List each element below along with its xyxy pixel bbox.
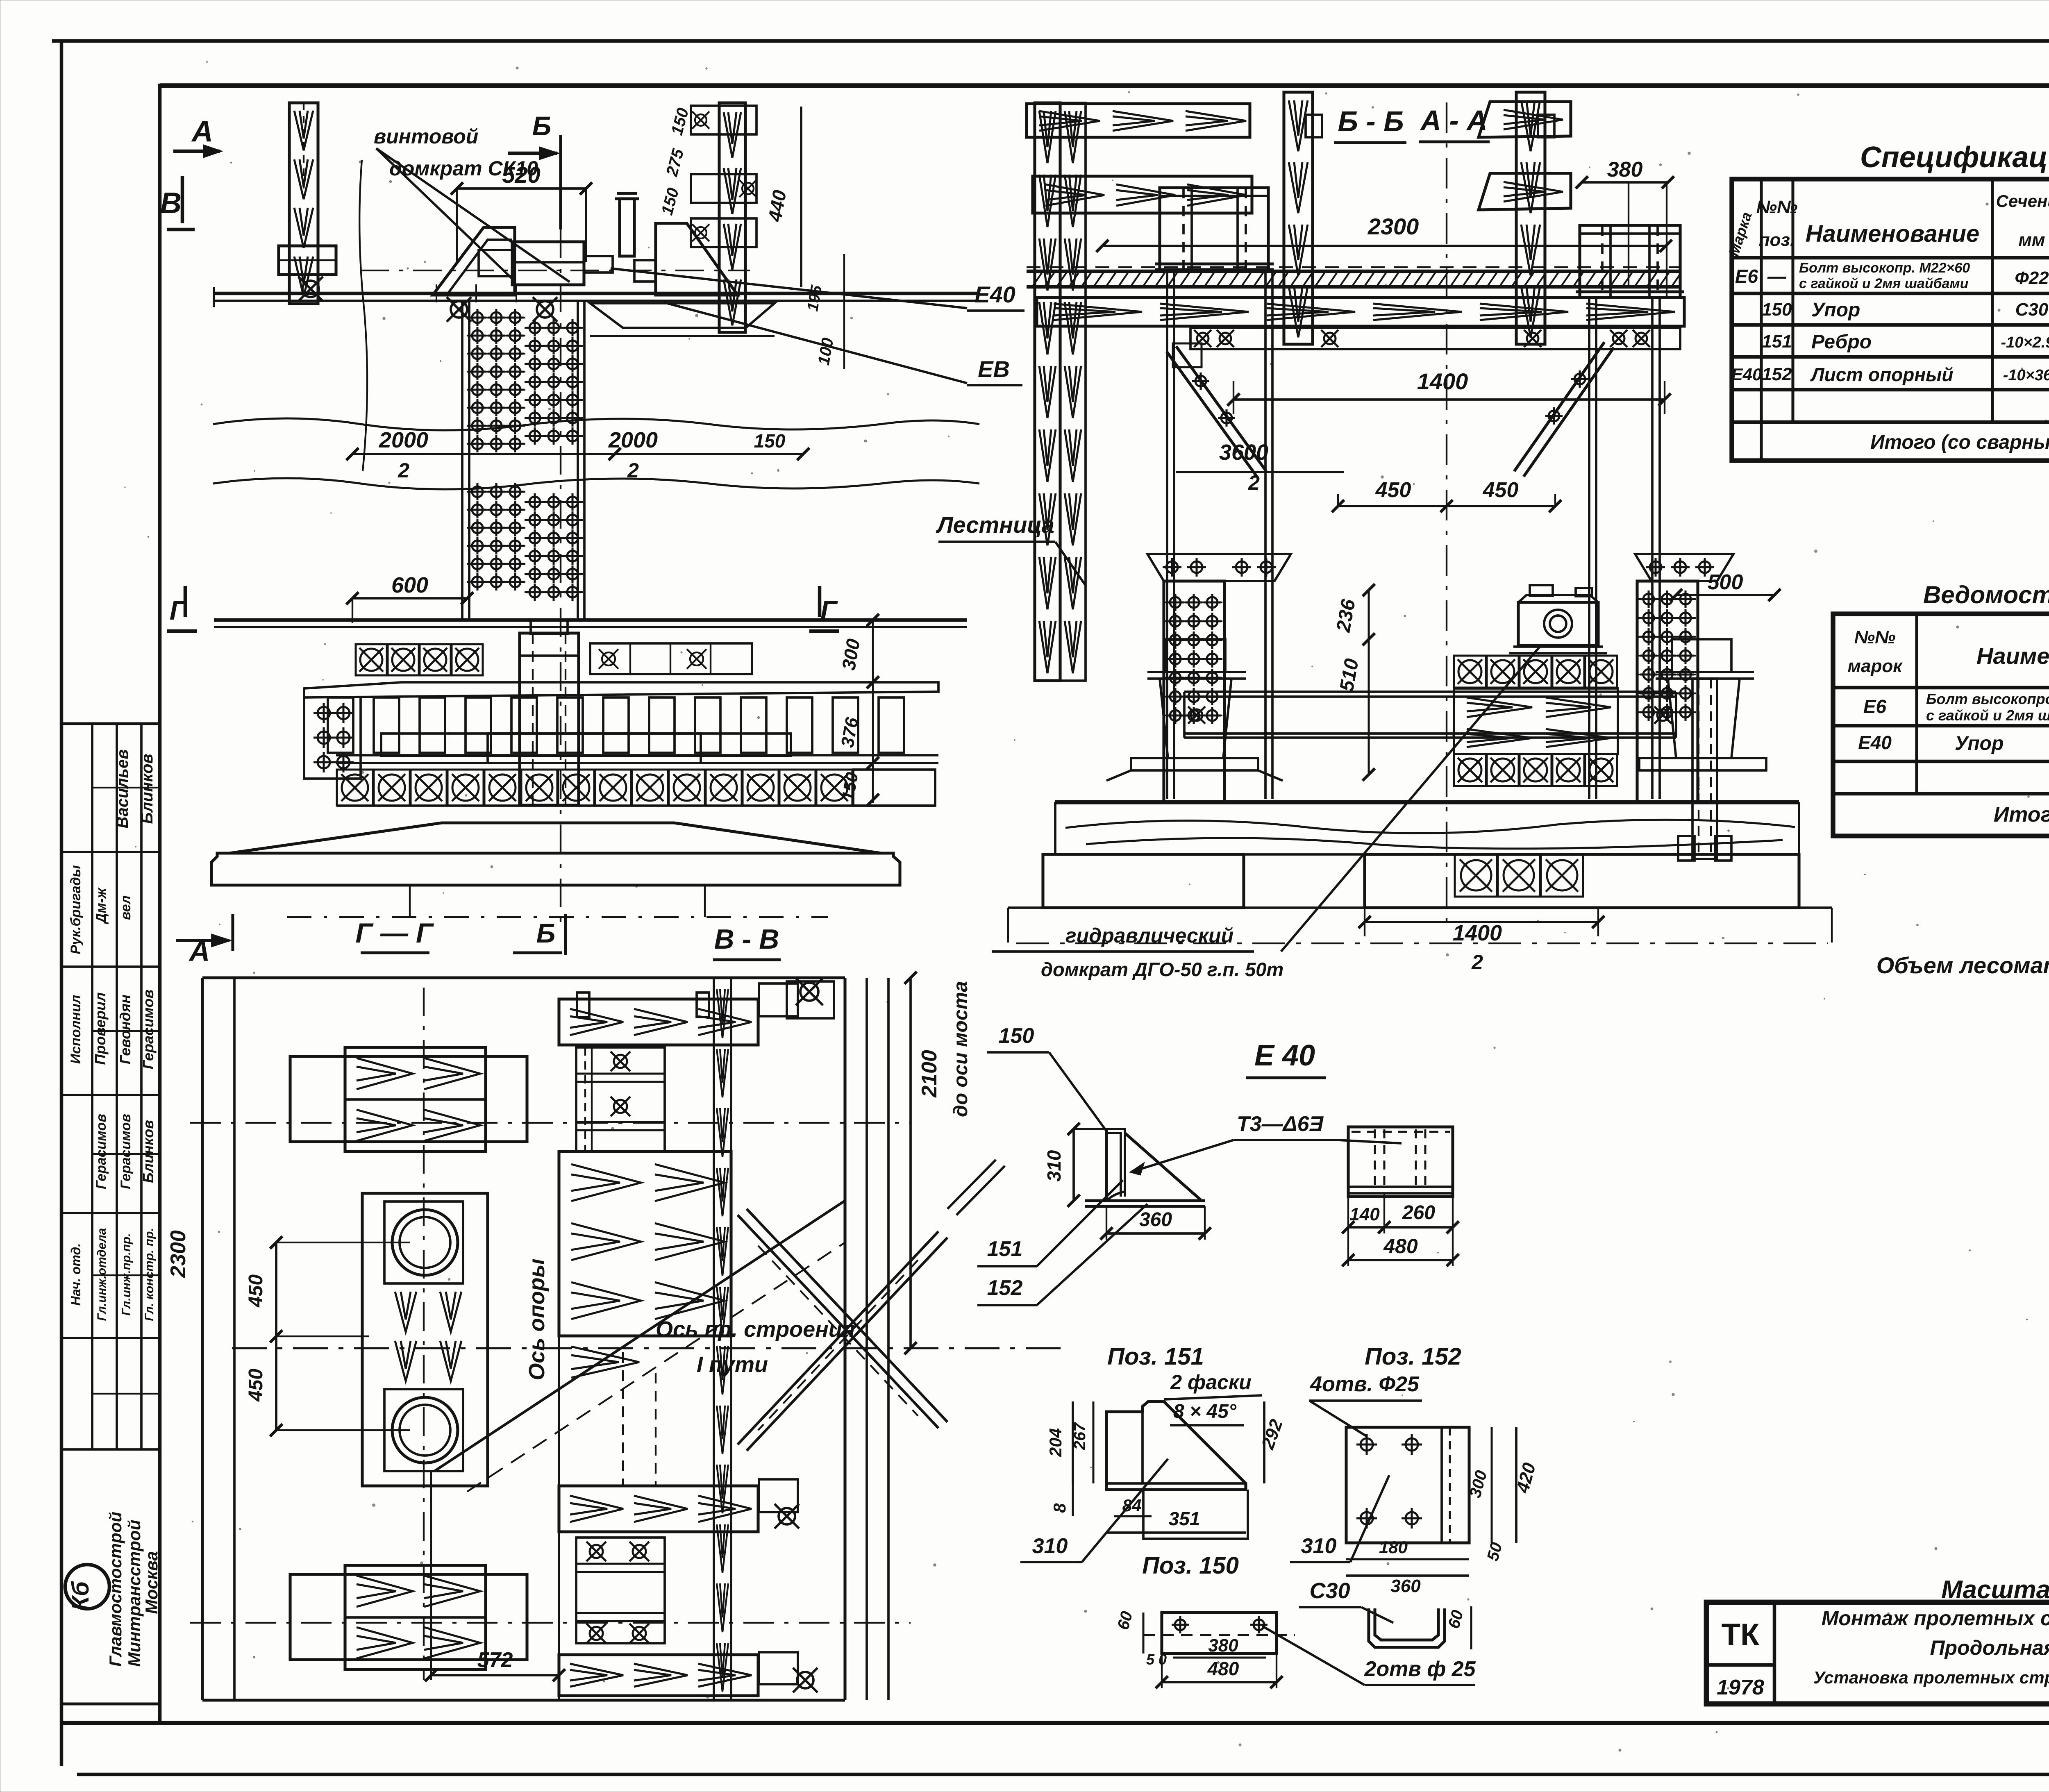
svg-text:310: 310: [1301, 1534, 1337, 1558]
svg-text:Е6: Е6: [1863, 696, 1887, 717]
svg-text:Сечение: Сечение: [1996, 191, 2049, 211]
plan bottom timber beam: [559, 1486, 758, 1532]
svg-text:267: 267: [1071, 1422, 1089, 1450]
svg-text:вел: вел: [118, 895, 134, 920]
svg-text:260: 260: [1402, 1202, 1435, 1224]
inner post left: [1284, 92, 1313, 344]
E40 right view box: [1348, 1127, 1453, 1197]
svg-text:3600: 3600: [1219, 440, 1268, 465]
svg-text:Упор: Упор: [1955, 733, 2004, 754]
foundation footing left: [1043, 854, 1244, 908]
grillage top beam slope: [304, 682, 938, 697]
svg-text:Нач. отд.: Нач. отд.: [68, 1243, 83, 1306]
svg-text:600: 600: [391, 573, 428, 597]
E40 left view dim 310: [1072, 1129, 1075, 1201]
pier top rail line: [214, 292, 978, 295]
upor box right E40: [1580, 225, 1680, 298]
svg-text:В: В: [160, 187, 182, 220]
svg-text:Итого:: Итого:: [1994, 803, 2049, 827]
diagonal cut boundary: [434, 1201, 845, 1471]
bolt grid lower left: [467, 491, 525, 493]
svg-text:180: 180: [1379, 1538, 1408, 1557]
table2 horizontal lines: [1833, 686, 2049, 690]
svg-text:Герасимов: Герасимов: [118, 1114, 134, 1189]
upper-left inner block planks: [345, 1047, 486, 1152]
svg-text:мм: мм: [2018, 230, 2045, 250]
center vertical dash axis: [423, 988, 425, 1680]
svg-text:винтовой: винтовой: [374, 125, 478, 148]
svg-text:2: 2: [1471, 951, 1483, 974]
grillage bottom flange: [336, 754, 938, 756]
svg-text:204: 204: [1046, 1428, 1065, 1457]
svg-text:Ф22: Ф22: [2015, 268, 2049, 288]
main slide I-beam: [1027, 270, 1680, 273]
horizontal strut between towers: [1184, 690, 1676, 693]
svg-text:Продольная надвижка: Продольная надвижка: [1930, 1636, 2049, 1659]
inner post right: [1516, 92, 1545, 344]
svg-text:2000: 2000: [379, 428, 428, 452]
svg-text:Монтаж пролетных строений 45,: Монтаж пролетных строений 45,0 и 55,0м: [1822, 1607, 2049, 1630]
svg-text:Е40: Е40: [1858, 732, 1892, 753]
E40 left dim 360: [1106, 1232, 1205, 1235]
Поз151 lower rect part: [1143, 1490, 1248, 1539]
dimension 450 450: [1338, 505, 1555, 507]
svg-text:№№: №№: [1756, 197, 1798, 217]
svg-text:Е6: Е6: [1735, 266, 1758, 287]
table1 outer box: [1732, 179, 2049, 461]
left bearing stack: [1166, 639, 1225, 672]
top beam left with grain: [1027, 104, 1250, 137]
middle-left tall block: [362, 1193, 488, 1486]
svg-text:2 фаски: 2 фаски: [1170, 1371, 1251, 1394]
lower-left inner block planks: [345, 1565, 486, 1669]
svg-text:4отв. Ф25: 4отв. Ф25: [1310, 1372, 1420, 1396]
dimension 600: [352, 597, 467, 600]
diagonal brace left: [1167, 346, 1266, 477]
right upor legs: [1588, 298, 1590, 799]
svg-text:Б: Б: [536, 918, 556, 948]
svg-text:360: 360: [1139, 1209, 1172, 1231]
svg-text:до оси моста: до оси моста: [950, 981, 972, 1117]
svg-text:Болт высокопрочный М22×60: Болт высокопрочный М22×60: [1926, 690, 2049, 707]
dimension 2300 vertical: [201, 1095, 204, 1555]
left post jack cross: [302, 281, 319, 297]
svg-text:Поз. 152: Поз. 152: [1365, 1343, 1461, 1370]
svg-text:I пути: I пути: [697, 1352, 768, 1377]
cribbing row1 x-squares: [356, 644, 387, 675]
svg-text:5 0: 5 0: [1146, 1651, 1167, 1668]
svg-text:2отв ф 25: 2отв ф 25: [1364, 1657, 1476, 1681]
upper jack circle: [392, 1210, 458, 1275]
svg-text:360: 360: [1390, 1576, 1421, 1596]
foundation footing right: [1365, 854, 1799, 908]
x-brace diagonal 1: [738, 1209, 947, 1428]
screw jack body: [512, 242, 584, 285]
inner frame top line: [160, 83, 2049, 88]
svg-text:—: —: [1767, 266, 1787, 287]
table2 outer box: [1833, 614, 2049, 836]
plan outer rect bottom: [202, 1699, 845, 1701]
cribbing row1 right sleepers: [590, 643, 752, 674]
center column lower part: [558, 1152, 560, 1700]
svg-text:Исполнил: Исполнил: [68, 995, 84, 1064]
I-beam hatch: [1033, 273, 1042, 286]
scan speckles: [850, 317, 852, 319]
screw jack assembly left wedge: [433, 227, 515, 295]
svg-text:2300: 2300: [166, 1230, 190, 1278]
svg-text:310: 310: [1043, 1150, 1065, 1181]
center axis Б-Б: [1446, 102, 1447, 922]
Поз151 dim 351: [1106, 1531, 1246, 1534]
Поз152 dim 300 420 right: [1491, 1427, 1493, 1543]
cribbing under jack row1: [1454, 656, 1486, 688]
svg-text:Г — Г: Г — Г: [355, 918, 434, 949]
plan lowest timber beam: [559, 1655, 758, 1696]
upor bottom bands: [1155, 262, 1274, 265]
center axis view1: [560, 229, 561, 922]
inner frame bottom line: [61, 1721, 2049, 1725]
bolt grid upper left: [467, 317, 525, 318]
left post bracket: [279, 246, 336, 275]
svg-text:Кб: Кб: [67, 1581, 94, 1611]
bolt grid lower right: [525, 501, 583, 503]
svg-text:150: 150: [999, 1024, 1034, 1048]
svg-text:1400: 1400: [1417, 368, 1468, 394]
svg-text:Гл. констр. пр.: Гл. констр. пр.: [143, 1228, 156, 1321]
post bolt squares: [1306, 115, 1322, 137]
grillage left gusset bolts: [304, 697, 361, 779]
table1 vertical lines: [1760, 179, 1763, 461]
table1 horizontal lines: [1732, 256, 2049, 260]
svg-text:с гайкой и 2мя шайбами: с гайкой и 2мя шайбами: [1926, 707, 2049, 724]
svg-text:Москва: Москва: [142, 1551, 161, 1614]
svg-text:Ребро: Ребро: [1811, 331, 1872, 353]
foundation top line: [1055, 800, 1799, 803]
wood grain lower center partial: [571, 1347, 639, 1378]
right bearing stack: [1672, 639, 1731, 672]
cribbing big row x-circle squares: [337, 770, 373, 806]
scan crack line: [359, 160, 367, 471]
svg-text:Лист опорный: Лист опорный: [1810, 364, 1954, 385]
stamp org logo KB: [65, 1565, 109, 1609]
inner frame left line / stamp right edge: [158, 84, 162, 1723]
plan top timber beam: [559, 999, 758, 1045]
dimension 450 450 vertical: [275, 1242, 277, 1430]
plan top beam right clamp: [759, 983, 798, 1016]
dimension 500 right: [1676, 594, 1774, 596]
x-brace upper extension: [947, 1160, 1005, 1215]
svg-text:500: 500: [1708, 570, 1743, 594]
second level beam left: [1033, 176, 1252, 213]
plan outer rect top: [202, 976, 845, 979]
plan left double verticals: [201, 978, 204, 1700]
E40 right dim 480: [1348, 1259, 1453, 1261]
svg-text:Поз. 151: Поз. 151: [1107, 1343, 1204, 1370]
x-brace diagonal 2: [738, 1231, 947, 1451]
foundation cribbing center: [1455, 854, 1497, 897]
svg-text:Минтрансстрой: Минтрансстрой: [125, 1520, 144, 1667]
second level beam right: [1479, 173, 1571, 210]
hydraulic jack body: [1518, 602, 1598, 645]
big center timber column grain: [559, 1152, 731, 1336]
svg-text:380: 380: [1208, 1635, 1238, 1656]
TK cell: [1706, 1663, 1774, 1667]
pier cap bottom dashes: [211, 884, 900, 886]
svg-text:2300: 2300: [1368, 213, 1419, 239]
Поз152 dims bottom 180 360: [1346, 1558, 1469, 1560]
nasadka timber band: [1037, 298, 1684, 326]
svg-text:Лестница: Лестница: [936, 512, 1054, 538]
stamp section dividers: [61, 851, 160, 853]
svg-text:Рук.бригады: Рук.бригады: [68, 865, 84, 954]
dimension 380 top right: [1582, 181, 1668, 184]
svg-text:С30: С30: [1309, 1579, 1350, 1603]
Поз150 channel section: [1369, 1608, 1445, 1647]
rail dashed line: [1027, 266, 1680, 268]
svg-text:ЕВ: ЕВ: [978, 356, 1010, 382]
support band under cribbing: [337, 804, 935, 807]
svg-text:поз.: поз.: [1759, 230, 1795, 250]
svg-text:Гевондян: Гевондян: [117, 995, 134, 1064]
stamp sub row lines: [92, 787, 160, 788]
Поз150 plate with holes: [1162, 1613, 1277, 1653]
svg-text:Главмостострой: Главмостострой: [106, 1512, 125, 1667]
Поз151 dim 204: [1072, 1401, 1074, 1483]
plan axis lower horizontal: [190, 1622, 911, 1624]
svg-text:8: 8: [1050, 1503, 1069, 1513]
x-brace dashed parallels: [758, 1246, 918, 1416]
jack right wedge: [656, 223, 738, 295]
dimension 1400 mid: [1233, 398, 1665, 401]
svg-text:Т3—Δ6Ǝ: Т3—Δ6Ǝ: [1237, 1112, 1324, 1136]
cross beam with bolts: [1190, 328, 1680, 349]
svg-text:-10×2.92: -10×2.92: [2001, 334, 2049, 351]
second rail line: [214, 618, 967, 622]
svg-text:Е40: Е40: [1731, 365, 1762, 384]
top beam right with grain: [1479, 102, 1571, 137]
svg-text:351: 351: [1169, 1508, 1200, 1529]
leader 152 to base: [1037, 1204, 1147, 1305]
svg-text:А - А: А - А: [1420, 104, 1487, 136]
left tower with bolt grid: [1164, 581, 1224, 802]
bolt grid upper right: [525, 327, 583, 329]
svg-text:2: 2: [398, 459, 409, 482]
svg-text:1978: 1978: [1717, 1676, 1764, 1699]
svg-text:Блинков: Блинков: [140, 1120, 157, 1183]
svg-text:Наименование: Наименование: [1806, 220, 1979, 247]
svg-text:Ось пр. строения: Ось пр. строения: [656, 1317, 855, 1342]
lower jack circle: [392, 1397, 458, 1463]
Поз152 plate rect: [1346, 1427, 1469, 1543]
bottom beam clamps: [759, 1479, 798, 1512]
grillage I-beam webs: [328, 697, 353, 753]
Поз151 dim 292: [1263, 1401, 1265, 1483]
svg-text:Васильев: Васильев: [114, 750, 132, 829]
svg-text:С30: С30: [2015, 300, 2049, 320]
svg-text:152: 152: [987, 1276, 1023, 1300]
svg-text:2: 2: [1248, 471, 1260, 494]
foundation base line: [1008, 906, 1832, 909]
plan axis upper horizontal: [190, 1122, 911, 1124]
foundation timber band: [1055, 803, 1799, 854]
svg-text:2100: 2100: [918, 1050, 941, 1098]
dimension 2300: [1102, 245, 1666, 247]
plan center horizontal axis: [232, 1347, 1070, 1349]
pedestal cap small: [531, 620, 568, 634]
vertical web posts: [461, 301, 463, 620]
svg-text:-10×360: -10×360: [2003, 367, 2049, 384]
center column lower dashed verticals: [622, 1352, 624, 1486]
svg-text:Б - Б: Б - Б: [1338, 105, 1404, 137]
sheet outer border left: [60, 41, 64, 1766]
dimension 572: [431, 1674, 559, 1676]
E40 right dims 140 260: [1348, 1226, 1453, 1229]
svg-text:152: 152: [1762, 364, 1792, 384]
svg-text:450: 450: [245, 1274, 267, 1308]
break wavy line mid: [213, 418, 979, 430]
svg-text:84: 84: [1122, 1496, 1142, 1515]
svg-text:ТК: ТК: [1722, 1617, 1760, 1652]
svg-text:Блинков: Блинков: [138, 754, 156, 824]
right timber column top with grain: [719, 103, 745, 332]
wood beams under jack: [1454, 688, 1618, 754]
upor box left E40: [1160, 188, 1268, 270]
svg-text:2: 2: [627, 459, 639, 482]
svg-text:2000: 2000: [608, 428, 658, 452]
lower steel bracket with bolts: [576, 1538, 665, 1643]
leader E40 to upor: [611, 268, 967, 308]
svg-text:140: 140: [1349, 1204, 1380, 1224]
outer column left: [1035, 103, 1060, 681]
leader 151 to rib: [1037, 1180, 1123, 1266]
svg-text:Наименование: Наименование: [1976, 643, 2049, 669]
svg-text:Герасимов: Герасимов: [93, 1114, 109, 1189]
svg-text:Гл.инж.пр.пр.: Гл.инж.пр.пр.: [120, 1233, 133, 1315]
svg-text:520: 520: [502, 162, 540, 188]
leader from label to jack: [376, 148, 570, 282]
pier cap slab: [211, 853, 900, 885]
cribbing under jack row2: [1454, 754, 1486, 786]
right hanging channel dashed: [1692, 679, 1717, 859]
svg-text:Объем лесоматериалов 1,8 м³: Объем лесоматериалов 1,8 м³: [1876, 952, 2049, 978]
svg-text:150: 150: [754, 430, 786, 452]
cross marks on rail: [427, 293, 445, 294]
Поз151 dim 267: [1093, 1401, 1095, 1483]
dimension 520: [457, 187, 586, 190]
svg-text:гидравлический: гидравлический: [1065, 924, 1233, 947]
svg-text:Е 40: Е 40: [1254, 1039, 1315, 1072]
svg-text:Упор: Упор: [1811, 299, 1860, 321]
svg-text:450: 450: [245, 1369, 267, 1402]
left stamp block outline: [61, 722, 160, 725]
svg-text:1400: 1400: [1453, 921, 1502, 945]
foundation centerline bottom: [1016, 943, 1828, 944]
svg-text:марок: марок: [1847, 656, 1903, 676]
diagonal brace right: [1514, 342, 1614, 477]
stamp column lines: [91, 724, 93, 1449]
svg-text:В - В: В - В: [714, 924, 779, 955]
svg-text:домкрат ДГО-50 г.п. 50т: домкрат ДГО-50 г.п. 50т: [1041, 958, 1283, 980]
svg-text:Гл.инж.отдела: Гл.инж.отдела: [95, 1228, 109, 1321]
Поз151 plate shape: [1106, 1401, 1246, 1490]
plan vertical post right of center: [714, 978, 731, 1700]
svg-text:Установка пролетных строений н: Установка пролетных строений на опорные …: [1813, 1668, 2049, 1687]
diagonal cut dashed parallel: [467, 1242, 845, 1492]
sheet outer border bottom: [77, 1773, 2049, 1776]
svg-text:Дм-ж: Дм-ж: [93, 887, 109, 924]
svg-text:150: 150: [1762, 300, 1792, 320]
svg-text:Поз. 150: Поз. 150: [1142, 1552, 1239, 1579]
leader to hydraulic jack: [1281, 645, 1541, 952]
left upor legs: [1166, 270, 1168, 799]
gusset plate right tower: [1635, 554, 1733, 581]
svg-text:с гайкой и 2мя шайбами: с гайкой и 2мя шайбами: [1799, 276, 1969, 291]
svg-text:А: А: [191, 115, 213, 148]
right tower with bolt grid: [1637, 581, 1698, 802]
upper steel bracket with bolts: [576, 1047, 665, 1152]
svg-text:450: 450: [1483, 478, 1519, 502]
svg-text:Е40: Е40: [975, 282, 1015, 307]
svg-text:Б: Б: [532, 111, 552, 141]
dimension 2000/2 right: [615, 453, 803, 455]
plan right double verticals: [843, 978, 846, 1700]
table2 vertical lines: [1915, 614, 1918, 794]
gusset plate left tower: [1147, 554, 1291, 581]
svg-text:380: 380: [1607, 158, 1643, 182]
svg-text:151: 151: [987, 1237, 1023, 1261]
svg-text:572: 572: [477, 1648, 513, 1672]
lower jack pad square: [384, 1389, 463, 1471]
leader T3 to профиль: [1131, 1140, 1233, 1172]
jack pipe vertical: [620, 199, 634, 256]
right column sleeper 1: [691, 106, 756, 134]
svg-text:151: 151: [1762, 332, 1792, 352]
jack base plate: [1513, 645, 1603, 648]
right column sleeper 2: [691, 174, 756, 203]
cribbing right plain part: [853, 770, 935, 806]
sheet outer border top: [52, 39, 2049, 43]
svg-text:Итого (со сварными швами):: Итого (со сварными швами):: [1870, 432, 2049, 453]
svg-text:№№: №№: [1854, 627, 1896, 647]
svg-text:Герасимов: Герасимов: [140, 990, 157, 1070]
Поз152 bolts: [1361, 1438, 1373, 1451]
dimension 2000/2 left: [352, 453, 615, 455]
svg-text:480: 480: [1383, 1235, 1418, 1258]
svg-text:480: 480: [1207, 1658, 1239, 1679]
svg-text:Спецификация металла: Спецификация металла: [1860, 141, 2049, 174]
pier cap trapezoid: [229, 823, 881, 853]
svg-text:Проверил: Проверил: [92, 992, 109, 1065]
dimension 1400/2 bottom: [1365, 921, 1598, 923]
upper jack pad square: [384, 1201, 463, 1283]
upper grillage flange right: [590, 303, 775, 328]
svg-text:310: 310: [1032, 1534, 1068, 1558]
jack screw rod: [584, 256, 613, 273]
svg-text:Ось опоры: Ось опоры: [525, 1258, 549, 1380]
svg-text:450: 450: [1375, 478, 1411, 502]
block grain between pads: [395, 1292, 416, 1332]
central pier column: [520, 633, 579, 805]
left timber post with grain: [289, 103, 318, 304]
pier shaft hint: [409, 885, 411, 917]
leader лестница: [1055, 542, 1086, 586]
jack axis dashed line: [361, 270, 750, 271]
svg-text:Ведомость марок на одну опору: Ведомость марок на одну опору: [1923, 581, 2049, 609]
title block main box: [1706, 1602, 2049, 1704]
E40 left view profile: [1085, 1129, 1205, 1206]
right column sleeper 3: [691, 218, 756, 247]
svg-text:Болт высокопр. М22×60: Болт высокопр. М22×60: [1799, 260, 1970, 276]
